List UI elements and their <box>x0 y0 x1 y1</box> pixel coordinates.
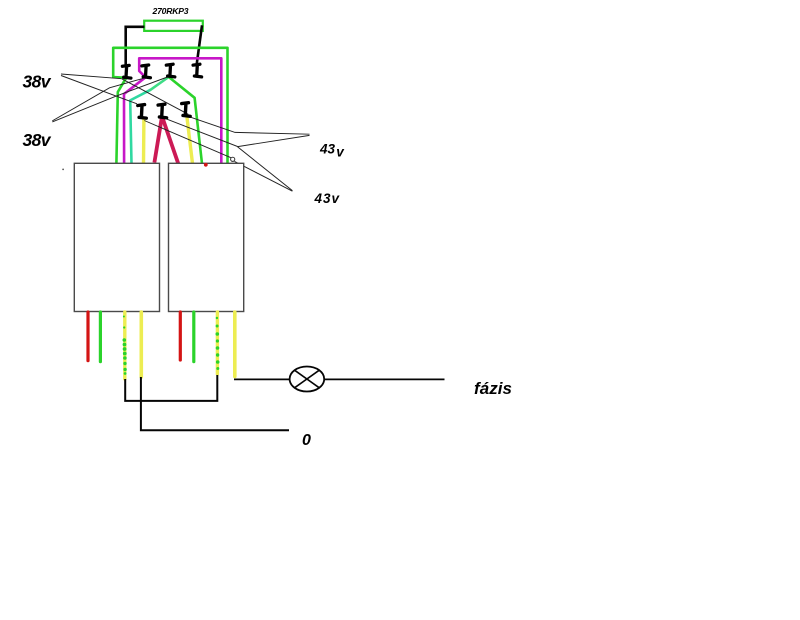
svg-text:38v: 38v <box>23 130 52 150</box>
svg-text:38v: 38v <box>23 71 52 91</box>
svg-text:0: 0 <box>302 432 311 449</box>
svg-text:270RKP3: 270RKP3 <box>152 6 189 16</box>
svg-text:43v: 43v <box>314 191 341 206</box>
svg-text:fázis: fázis <box>474 379 512 398</box>
svg-text:43: 43 <box>319 141 336 156</box>
